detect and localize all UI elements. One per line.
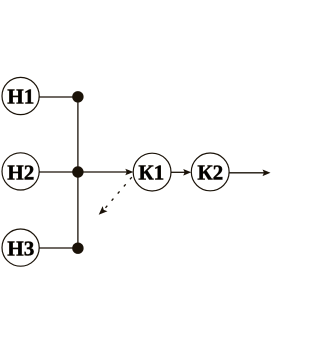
svg-text:Н3: Н3 xyxy=(7,237,34,261)
svg-text:К1: К1 xyxy=(138,161,164,185)
svg-text:К2: К2 xyxy=(197,161,223,185)
svg-text:Н2: Н2 xyxy=(7,161,34,185)
svg-text:Н1: Н1 xyxy=(7,85,34,109)
